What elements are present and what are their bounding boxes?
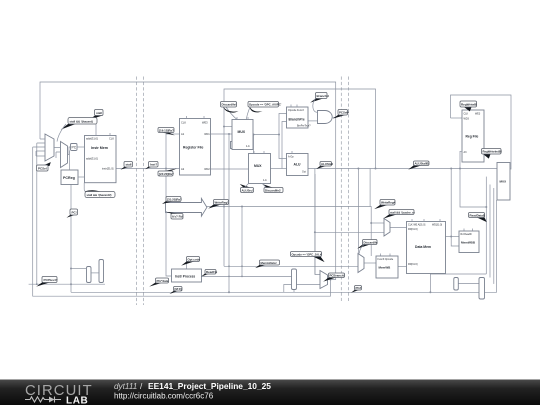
wire mux b out xyxy=(398,266,407,268)
wire vertical x358.4 xyxy=(357,169,359,254)
svg-text:[19:15]Ra?: [19:15]Ra? xyxy=(159,129,174,133)
svg-text:CLK: CLK xyxy=(464,113,469,116)
svg-text:ReadDataB: ReadDataB xyxy=(470,214,485,218)
svg-text:PC: PC xyxy=(72,146,77,150)
wire pc to instr mem xyxy=(77,146,84,148)
svg-text:WD[31:0]: WD[31:0] xyxy=(432,224,442,227)
flag Inst xyxy=(145,162,158,170)
svg-text:ReadFix: ReadFix xyxy=(206,270,218,274)
block MUX right xyxy=(497,163,510,201)
wire verticals center drop1 xyxy=(224,265,358,267)
small reg left of regfile right xyxy=(460,151,486,207)
flag stall small xyxy=(121,162,133,170)
wire bottom bus pcplus xyxy=(33,147,331,296)
wire right mux drops b xyxy=(493,188,495,284)
wire pcbranch mux out xyxy=(330,279,332,281)
junction w2 crossings xyxy=(228,276,230,278)
junction drop2 xyxy=(228,291,230,293)
svg-text:BranchPre: BranchPre xyxy=(289,118,305,122)
svg-text:WriteReg!: WriteReg! xyxy=(215,201,229,205)
wire mux b in xyxy=(54,147,71,158)
wire pcbranch mux feed2 xyxy=(297,284,321,286)
junction mux1 out xyxy=(253,134,255,136)
svg-text:PCBranch!: PCBranch! xyxy=(330,274,345,278)
flag discardife3 xyxy=(357,240,378,249)
svg-text:ALUStallB: ALUStallB xyxy=(415,162,429,166)
svg-text:Opt code: Opt code xyxy=(188,258,201,262)
wire immgen out bus xyxy=(206,207,371,257)
svg-text:A-Op: A-Op xyxy=(288,155,294,158)
flag pcselhash xyxy=(333,110,350,119)
flag ra2 xyxy=(158,169,177,177)
wire verticals center drop2 xyxy=(228,134,230,292)
svg-text:A2: A2 xyxy=(181,167,185,171)
wire register r left feed xyxy=(284,285,292,293)
junction alu line / muxb drop xyxy=(357,168,359,170)
block Instr Mem xyxy=(85,136,117,183)
wire instr to immgen xyxy=(166,133,180,135)
svg-text:Func3 Opcode: Func3 Opcode xyxy=(378,258,394,261)
register PC xyxy=(71,144,78,151)
svg-text:[24:20]Ra?: [24:20]Ra? xyxy=(159,172,174,176)
wire mux1 out to mux2 top xyxy=(253,135,255,154)
svg-text:WE3: WE3 xyxy=(475,113,481,116)
wire discardife to mux1 xyxy=(226,107,237,120)
block MUX2 xyxy=(249,154,271,184)
wire small reg pair left xyxy=(91,272,99,274)
svg-text:Instr Process: Instr Process xyxy=(175,274,195,278)
wire forward to mux1 upper xyxy=(224,126,232,128)
svg-text:Inst?: Inst? xyxy=(150,163,157,167)
svg-text:addr[31:0]: addr[31:0] xyxy=(86,157,98,161)
svg-text:RD2: RD2 xyxy=(205,167,211,171)
svg-text:CLK: CLK xyxy=(181,121,186,125)
junction pc / adder feed xyxy=(70,268,72,270)
wire branchd curve xyxy=(313,99,318,113)
svg-text:MUX: MUX xyxy=(500,180,507,184)
wire memwb center out xyxy=(364,262,376,264)
mux memtoreg b xyxy=(358,254,364,273)
flag stall-hazard2 xyxy=(84,183,115,198)
mux pcbranch c xyxy=(320,271,328,289)
wire branchpre out to and xyxy=(308,120,318,122)
wire auipc to mux1 xyxy=(247,107,251,120)
flag stall cache xyxy=(383,210,415,219)
svg-text:Data Mem: Data Mem xyxy=(415,245,431,249)
svg-text:RegWriteB!: RegWriteB! xyxy=(461,103,477,107)
stage divider IF/ID left dashed line xyxy=(136,77,138,306)
wire pcbranch mux feed xyxy=(315,174,320,275)
block ALU xyxy=(287,154,309,176)
flag discardife xyxy=(221,102,239,113)
svg-text:It's? Rd: It's? Rd xyxy=(172,215,183,219)
svg-text:PCSel#: PCSel# xyxy=(339,111,349,115)
junction pcplus4/pc xyxy=(70,283,72,285)
svg-text:LAB: LAB xyxy=(66,396,88,405)
svg-text:PCReg: PCReg xyxy=(63,176,75,180)
junction writereg bus tap xyxy=(241,206,243,208)
block PCReg xyxy=(61,170,78,185)
wire and out to pcsel xyxy=(333,116,336,118)
block MUX1 side tab xyxy=(231,142,237,149)
svg-text:1-b: 1-b xyxy=(263,178,267,182)
svg-text:instr[31:0]: instr[31:0] xyxy=(102,166,114,170)
wire small reg pair right xyxy=(458,283,479,285)
wire branch target top xyxy=(224,89,376,266)
and gate PCSel xyxy=(318,111,333,124)
wire mux2 out to branchpre xyxy=(282,122,287,169)
pin tick instr mem clk xyxy=(96,116,110,136)
wire alu out long xyxy=(308,168,497,170)
flag opcode jal xyxy=(291,252,325,263)
junction branch target / alu line xyxy=(375,168,377,170)
stage divider EX/MEM right dashed line xyxy=(347,77,349,302)
wire hazard label to mux xyxy=(57,124,66,142)
svg-text:BrePreTrue?: BrePreTrue? xyxy=(297,125,311,128)
wire alu out down to datamem xyxy=(451,169,459,247)
svg-text:A1: A1 xyxy=(181,132,185,136)
flag p10 xyxy=(351,286,362,293)
flag readfix xyxy=(201,270,217,277)
svg-text:stall && !(hazard): stall && !(hazard) xyxy=(70,119,93,123)
wire mux1 to alu a xyxy=(279,135,287,159)
stage divider IF/ID right dashed line xyxy=(143,77,145,306)
block Register File xyxy=(180,119,211,176)
flag alustallb xyxy=(408,161,429,170)
junction writereg bus / pc vertical xyxy=(223,206,225,208)
junction a3 wire xyxy=(485,206,487,208)
junction alu xyxy=(450,168,452,170)
wire pcreg vertical down xyxy=(70,185,72,293)
flag optcode xyxy=(181,257,200,266)
svg-text:stall && !(cache_re: stall && !(cache_re xyxy=(390,211,415,215)
svg-text:DiscardIfe!: DiscardIfe! xyxy=(222,103,237,107)
svg-text:MemtoData!: MemtoData! xyxy=(261,261,277,265)
svg-text:stall: stall xyxy=(126,163,132,167)
flag pcbranch xyxy=(323,273,344,282)
wire mux2 out to alu b xyxy=(271,168,287,170)
block Data Mem xyxy=(407,222,446,274)
flag regwriteb xyxy=(460,101,477,111)
flag PC xyxy=(67,209,78,218)
pin ticks regfile right xyxy=(467,108,469,111)
stage divider EX/MEM left dashed line xyxy=(340,77,342,302)
svg-text:RegWriteIndB!: RegWriteIndB! xyxy=(483,150,502,154)
svg-text:MemWBB: MemWBB xyxy=(461,241,476,245)
svg-text:PC#: PC# xyxy=(356,286,362,290)
block MemWB center xyxy=(376,256,398,278)
wire mux a top in xyxy=(371,222,384,224)
register center tall r xyxy=(292,269,297,290)
block Instr Process xyxy=(172,269,202,282)
block MUX1 xyxy=(232,120,253,150)
wire datamem down xyxy=(429,274,431,293)
flag PCPlus4 xyxy=(36,277,57,287)
svg-text:PC/*data: PC/*data xyxy=(157,279,169,283)
flag stall top xyxy=(89,110,103,120)
flag writereg hash xyxy=(374,200,395,210)
footer bar xyxy=(0,380,540,405)
flag ra1 xyxy=(158,128,175,136)
wire pcplus4 bottom rail xyxy=(29,283,105,285)
svg-text:Reg File: Reg File xyxy=(466,135,479,139)
wire regwrite loop right xyxy=(451,95,512,169)
junction w1 crossings xyxy=(228,265,230,267)
wire pc to adder register xyxy=(71,268,87,270)
svg-text:WD3: WD3 xyxy=(464,118,470,121)
flag PCSel xyxy=(37,162,51,171)
flag pcdata xyxy=(149,278,169,287)
register pc plus small a xyxy=(87,267,92,283)
svg-text:MemWB: MemWB xyxy=(379,266,392,270)
svg-text:[31:20]Ra?: [31:20]Ra? xyxy=(167,198,182,202)
pin ticks mux blocks xyxy=(237,105,390,257)
wire pcreg to instrmem xyxy=(78,176,84,178)
flag stall-hazard xyxy=(61,118,97,130)
svg-text:PCSel: PCSel xyxy=(38,167,47,171)
wire register r bottom stub xyxy=(293,290,295,293)
wire pcplus4 short xyxy=(36,143,38,284)
junction forward tap xyxy=(223,126,225,128)
svg-text:WriteReg#: WriteReg# xyxy=(381,201,396,205)
svg-text:PC!: PC! xyxy=(72,210,77,214)
register right tall d xyxy=(479,278,485,300)
svg-text:CLK WE A[31:0]: CLK WE A[31:0] xyxy=(408,224,426,227)
logo resistor diode symbol xyxy=(25,397,61,403)
svg-text:DiscardIfe: DiscardIfe xyxy=(364,241,378,245)
wire mux1 out xyxy=(253,114,287,135)
wire vertical x370 xyxy=(369,169,371,207)
svg-text:DiscardIfe2: DiscardIfe2 xyxy=(265,189,281,193)
wire instr vertical branch xyxy=(166,134,172,276)
svg-text:ALU: ALU xyxy=(294,163,302,167)
wire pc feedback top xyxy=(40,82,336,280)
svg-text:[M:0]: [M:0] xyxy=(175,287,182,291)
flag memtoreg xyxy=(255,260,279,268)
svg-text:WE3: WE3 xyxy=(202,121,208,125)
block BranchPre xyxy=(287,107,309,128)
svg-text:EE141_Project_Pipeline_10_25: EE141_Project_Pipeline_10_25 xyxy=(148,381,271,391)
wire datamem rdata to memwbb xyxy=(446,236,460,238)
svg-text:ALUStall: ALUStall xyxy=(321,162,333,166)
pin ticks regfile xyxy=(187,116,205,119)
svg-text:Opcode == 'OPC_AUIPC': Opcode == 'OPC_AUIPC' xyxy=(249,103,282,107)
wire store data bus xyxy=(315,231,384,233)
svg-text:RD[31:0]: RD[31:0] xyxy=(408,263,418,266)
svg-text:PCPlus4?: PCPlus4? xyxy=(44,278,58,282)
block MemWBB right xyxy=(459,231,479,253)
wire vertical x314.9 xyxy=(314,169,316,275)
register pc plus small b xyxy=(99,260,104,283)
svg-text:CLK: CLK xyxy=(109,136,114,140)
wire discardife to muxb xyxy=(359,245,364,254)
svg-text:Opcode == 'OPC_JAL#': Opcode == 'OPC_JAL#' xyxy=(292,253,323,257)
junction mux1 out xyxy=(278,134,280,136)
mux store a xyxy=(384,219,390,237)
junction rd1 xyxy=(228,133,230,135)
svg-text:addr[31:0]: addr[31:0] xyxy=(86,136,98,140)
wire mux a out to datamem xyxy=(390,227,407,229)
svg-text:Opcode Func3: Opcode Func3 xyxy=(288,109,304,112)
svg-text:Register File: Register File xyxy=(183,146,203,150)
junction store bus tap xyxy=(314,231,316,233)
flag alusrc xyxy=(240,184,254,193)
wire optcode label stub xyxy=(186,261,188,269)
wire pcreg top feed xyxy=(69,151,71,171)
wire center drop3 to jal xyxy=(202,275,292,277)
flag branchd xyxy=(310,93,329,103)
flag imm xyxy=(162,197,182,205)
wire bottom bus writeback xyxy=(71,200,497,292)
svg-text:RD1: RD1 xyxy=(205,132,211,136)
flag discardife2 xyxy=(262,184,283,193)
svg-text:stall && !(hazard#): stall && !(hazard#) xyxy=(87,193,112,197)
flag opcode auipc xyxy=(248,102,282,113)
svg-text:Out: Out xyxy=(302,171,306,174)
block Reg File right xyxy=(462,110,484,162)
svg-text:dyt111: dyt111 xyxy=(114,382,137,391)
wire right mux drops a xyxy=(489,185,491,278)
pin ticks data mem xyxy=(412,219,440,222)
junction datamem rdata xyxy=(450,236,452,238)
svg-text:Branchd: Branchd xyxy=(317,94,329,98)
wire memwbb down right verticals xyxy=(485,177,487,274)
svg-text:ALUSrc!: ALUSrc! xyxy=(242,189,254,193)
junction a3 / alu line xyxy=(459,168,461,170)
svg-text:stall: stall xyxy=(96,111,102,115)
flag alustall xyxy=(316,162,333,170)
junction pcplus4 left xyxy=(36,283,38,285)
wire mux a stubs xyxy=(33,139,45,156)
immgen arrow xyxy=(166,198,207,216)
wire rf rd2 to mux2 xyxy=(211,168,249,170)
register right small c xyxy=(454,278,459,291)
svg-text:Instr Mem: Instr Mem xyxy=(91,146,108,150)
mux PCSel B xyxy=(61,142,68,168)
flag rd xyxy=(165,211,183,219)
pin ticks memwbb right xyxy=(464,229,473,232)
svg-text:Rd ReadD: Rd ReadD xyxy=(461,233,472,236)
wire rf rd1 to mux1 xyxy=(211,133,233,135)
flag regwriteindb xyxy=(482,149,502,159)
junction instr xyxy=(165,168,167,170)
wire datamem bottom loop xyxy=(430,273,486,275)
junction datamem down xyxy=(429,291,431,293)
svg-text:MUX: MUX xyxy=(238,130,246,134)
wire wd3 stub xyxy=(451,117,463,119)
flag writereg xyxy=(208,200,228,209)
svg-text:http://circuitlab.com/ccr6c76: http://circuitlab.com/ccr6c76 xyxy=(114,392,214,401)
svg-text:1-b: 1-b xyxy=(246,144,250,148)
junction mux a feed xyxy=(370,222,372,224)
flag m0 xyxy=(170,287,183,295)
flag readdatab xyxy=(469,213,487,223)
wire verticals center drop3 xyxy=(241,207,243,277)
svg-text:RD[31:0]: RD[31:0] xyxy=(408,228,418,231)
svg-text:MUX: MUX xyxy=(254,164,262,168)
mux PCSel A xyxy=(45,134,54,161)
wire instr mem to regfile xyxy=(116,168,180,170)
